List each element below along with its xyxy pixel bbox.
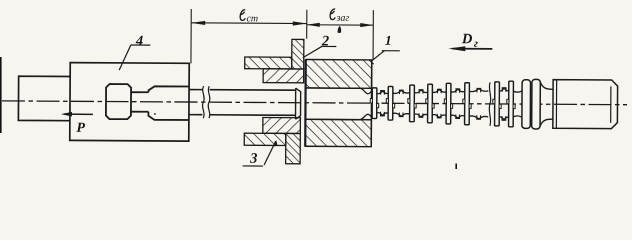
wire: bar core between ribs — [393, 90, 410, 93]
dimension l_zag extension (left, shared) — [306, 10, 308, 39]
rib at x=390 — [388, 86, 393, 120]
lower clamp plate — [244, 133, 286, 145]
clamp box 4 outline — [70, 63, 189, 142]
rib at x=511 — [509, 81, 514, 127]
rib at x=467 — [465, 83, 470, 125]
workpiece waist in die exit — [360, 88, 372, 94]
break symbol in rod — [202, 86, 204, 118]
wire: bar core between ribs — [469, 89, 488, 92]
rib at x=430 — [428, 84, 433, 123]
dimension l_st line — [191, 22, 307, 25]
ink blob under l_zag — [338, 26, 342, 33]
die bar 2 (vertical) — [292, 39, 304, 69]
wire: bar core between ribs — [499, 88, 509, 91]
dimension l_zag extension (right) — [372, 10, 374, 60]
wire: bar core between ribs — [414, 90, 428, 93]
holder block 1 left edge (thick) — [304, 59, 307, 146]
svg-text:4: 4 — [135, 33, 143, 49]
label 3 with leader — [243, 140, 278, 167]
wire: rod from clamp to die (left segment) — [189, 90, 203, 115]
die bar 3 (vertical) — [286, 133, 301, 163]
svg-text:3: 3 — [249, 151, 257, 167]
break symbol in ribbed bar — [489, 82, 491, 126]
gripper neck — [131, 92, 149, 112]
label 2 with leader — [303, 33, 337, 58]
rib at x=448 — [446, 83, 451, 124]
holder block 1 lower section — [305, 119, 371, 146]
scan edge artifact left — [0, 57, 2, 133]
svg-text:P: P — [76, 121, 85, 136]
svg-text:D: D — [461, 31, 473, 47]
upper die insert band 2 (horizontal) — [263, 69, 304, 83]
wire: bar core between ribs — [513, 91, 522, 92]
node: drawn rod stub (left) — [18, 76, 70, 121]
wire: rod from break to die (right segment) — [209, 90, 295, 116]
dimension l_st extension line (left) — [190, 9, 192, 63]
rib at x=412 — [410, 85, 415, 122]
lower die insert band (horizontal) — [263, 117, 301, 133]
force P arrow — [64, 113, 93, 115]
neck before head — [540, 82, 553, 126]
svg-text:1: 1 — [385, 33, 392, 48]
gripper disc (right) — [148, 86, 189, 120]
holder block 1 upper section — [306, 59, 372, 88]
wire: bar core between ribs — [530, 90, 532, 91]
label l_st — [240, 10, 258, 25]
movement arrow D_g — [452, 48, 492, 50]
wire: bar core between ribs — [377, 91, 389, 94]
head cylinder at right end — [553, 80, 618, 129]
rib at x=497 — [495, 82, 500, 126]
transition ring at x=526 — [522, 80, 531, 129]
workpiece shank surface in bore — [305, 88, 360, 120]
wire: bar core between ribs — [451, 89, 465, 92]
transition ring at x=536 — [532, 79, 541, 129]
head left double line — [555, 80, 557, 129]
wire: bar core between ribs — [432, 89, 446, 92]
label l_zag — [330, 9, 349, 24]
svg-text:заг: заг — [335, 13, 349, 24]
dimension l_zag line — [307, 24, 373, 26]
rib at x=374 — [372, 88, 377, 119]
head chamfer line — [610, 86, 612, 122]
svg-text:г: г — [474, 38, 478, 50]
holder block 1 right face — [370, 60, 373, 147]
svg-text:ст: ст — [246, 13, 258, 24]
gripper disc (left) inside box 4 — [106, 84, 131, 119]
upper clamp plate — [245, 57, 292, 69]
rod end collar in die — [295, 88, 300, 119]
label 4 with leader — [119, 33, 150, 70]
wire: main axis centerline — [2, 101, 627, 105]
label D_g — [461, 31, 478, 50]
small tick bottom center — [455, 164, 457, 170]
label 1 with leader — [369, 33, 400, 65]
